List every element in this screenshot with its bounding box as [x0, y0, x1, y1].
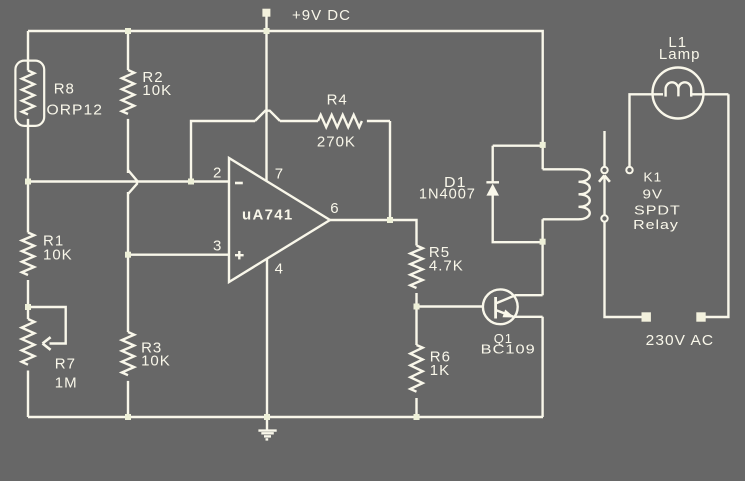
- svg-text:Relay: Relay: [633, 217, 679, 232]
- svg-text:SPDT: SPDT: [634, 202, 681, 217]
- svg-text:R7: R7: [55, 356, 76, 373]
- svg-text:BC109: BC109: [481, 342, 536, 357]
- svg-text:1K: 1K: [430, 362, 450, 379]
- svg-text:230V AC: 230V AC: [646, 332, 714, 349]
- svg-text:4: 4: [275, 260, 284, 277]
- svg-text:4.7K: 4.7K: [429, 258, 464, 275]
- svg-text:2: 2: [213, 164, 222, 181]
- svg-text:K1: K1: [643, 170, 662, 185]
- svg-text:R8: R8: [54, 81, 75, 98]
- svg-text:R4: R4: [327, 92, 348, 109]
- svg-text:10K: 10K: [141, 352, 171, 369]
- svg-text:uA741: uA741: [242, 207, 294, 224]
- svg-text:10K: 10K: [142, 82, 172, 99]
- svg-text:3: 3: [213, 238, 222, 255]
- svg-text:Lamp: Lamp: [659, 46, 701, 63]
- svg-text:ORP12: ORP12: [47, 102, 104, 119]
- svg-text:10K: 10K: [43, 247, 73, 264]
- svg-text:6: 6: [330, 200, 339, 217]
- svg-text:270K: 270K: [317, 134, 356, 151]
- svg-text:1N4007: 1N4007: [419, 185, 476, 202]
- svg-text:+9V DC: +9V DC: [292, 7, 351, 24]
- svg-text:9V: 9V: [643, 186, 664, 201]
- svg-text:7: 7: [275, 166, 284, 183]
- svg-text:1M: 1M: [55, 375, 78, 392]
